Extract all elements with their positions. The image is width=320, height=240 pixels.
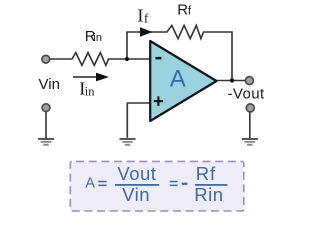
svg-text:Vin: Vin [39, 76, 60, 93]
svg-text:-Vout: -Vout [228, 86, 265, 103]
svg-text:A: A [170, 65, 186, 92]
svg-text:in: in [85, 84, 95, 98]
svg-text:Rf: Rf [196, 163, 216, 184]
svg-text:Vout: Vout [117, 163, 156, 184]
svg-text:in: in [93, 32, 102, 44]
svg-text:Vin: Vin [122, 184, 150, 205]
svg-text:I: I [137, 6, 143, 26]
svg-text:Rin: Rin [194, 184, 223, 205]
svg-text:R: R [177, 2, 188, 19]
svg-text:f: f [144, 11, 149, 26]
svg-text:f: f [188, 6, 192, 18]
svg-text:A: A [85, 176, 95, 192]
